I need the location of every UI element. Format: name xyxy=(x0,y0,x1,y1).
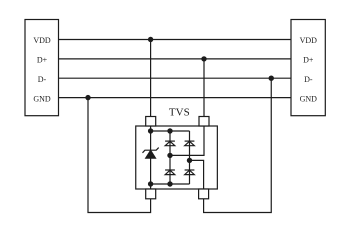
diode D2 (middle column bottom) xyxy=(165,170,175,175)
wire D+ drop to TVS pin 4 xyxy=(203,59,205,117)
diode D4 (right column bottom) xyxy=(185,170,195,175)
junction bottom rail left xyxy=(148,181,153,186)
wire GND bus xyxy=(59,97,292,99)
pin 3 bottom-right xyxy=(199,189,209,199)
junction top rail left xyxy=(148,128,153,133)
wire right diode column xyxy=(189,131,191,184)
diode D1 (middle column top) xyxy=(165,141,175,146)
svg-text:VDD: VDD xyxy=(300,36,318,45)
node D- right column xyxy=(187,158,192,163)
wire left vertical inside TVS xyxy=(150,126,152,189)
wire D+ bus xyxy=(59,58,292,60)
node D+ middle column xyxy=(167,153,172,158)
junction bottom rail middle xyxy=(167,181,172,186)
pin 4 top-right xyxy=(199,117,209,127)
wire top rail inside TVS xyxy=(151,130,190,132)
wire D- return right xyxy=(204,78,272,212)
left connector box J1 xyxy=(25,20,59,116)
svg-text:VDD: VDD xyxy=(33,36,51,45)
svg-text:D-: D- xyxy=(304,75,313,84)
diode D3 (right column top) xyxy=(185,141,195,146)
svg-text:GND: GND xyxy=(33,94,51,103)
svg-text:GND: GND xyxy=(300,94,318,103)
TVS body U1 xyxy=(136,126,218,189)
wire GND return left xyxy=(88,98,151,213)
junction D-/return xyxy=(269,76,274,81)
wire VDD bus xyxy=(59,39,292,41)
junction GND/return xyxy=(85,95,90,100)
svg-text:TVS: TVS xyxy=(169,106,190,118)
wire right node to pin 3 xyxy=(190,160,204,189)
svg-text:D+: D+ xyxy=(37,56,48,65)
junction top rail middle xyxy=(167,128,172,133)
wire pin4 to middle node xyxy=(170,126,204,155)
junction D+/pin4 xyxy=(201,56,206,61)
wire D- bus xyxy=(59,77,292,79)
wire middle diode column xyxy=(169,131,171,184)
zener diode Z1 xyxy=(143,148,159,159)
pin 2 bottom-left xyxy=(146,189,156,199)
wire VDD drop to TVS pin 1 xyxy=(150,40,152,117)
right connector box J2 xyxy=(291,20,325,116)
svg-text:D+: D+ xyxy=(303,56,314,65)
pin 1 top-left xyxy=(146,117,156,127)
junction VDD/pin1 xyxy=(148,37,153,42)
svg-text:D-: D- xyxy=(38,75,47,84)
wire bottom rail inside TVS xyxy=(151,183,190,185)
